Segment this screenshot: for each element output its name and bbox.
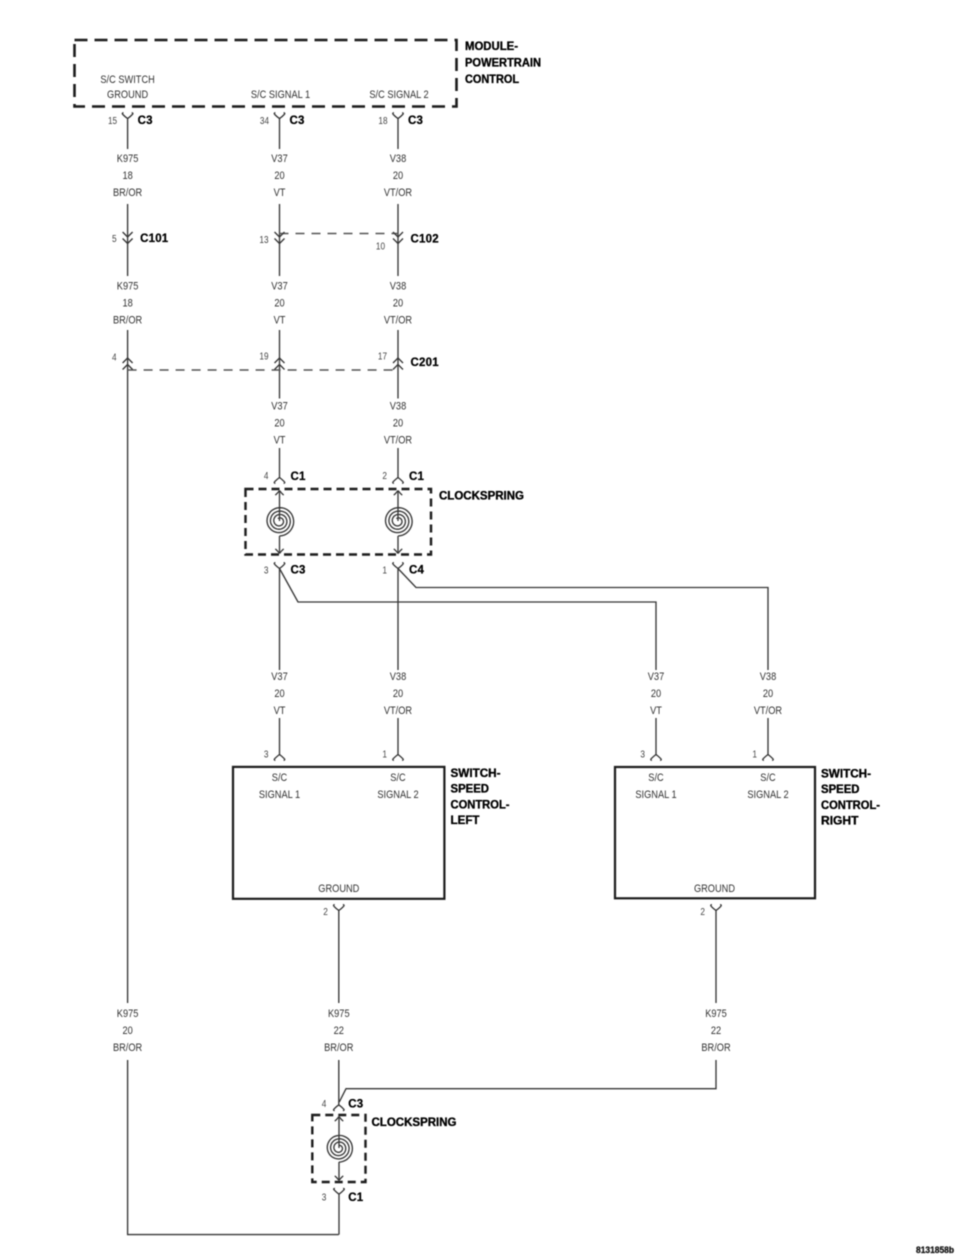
svg-text:K975: K975 [117, 281, 139, 293]
wire K975 left run to bottom [128, 1060, 339, 1235]
svg-text:3: 3 [264, 566, 269, 577]
svg-text:19: 19 [259, 352, 268, 363]
pin 15 connector C3 (PCM ground) [122, 113, 133, 119]
clockspring box (dashed) [246, 489, 432, 555]
clockspring coil 1 lead arrow up [275, 491, 283, 496]
svg-text:V38: V38 [390, 281, 407, 293]
module - powertrain control outline (dashed) [75, 40, 457, 107]
clockspring coil 2 spiral [386, 508, 413, 536]
svg-text:5: 5 [112, 234, 117, 245]
clockspring ground coil lead arrow up [335, 1117, 343, 1122]
svg-text:4: 4 [112, 353, 117, 364]
connector C201 pin 17 [393, 358, 403, 370]
svg-text:2: 2 [700, 907, 705, 918]
wire V37 branch to right switch [280, 569, 657, 671]
svg-text:VT/OR: VT/OR [754, 705, 782, 717]
svg-text:C3: C3 [290, 115, 305, 127]
wire V37 from PCM pin 34 [279, 119, 281, 149]
svg-text:SPEED: SPEED [821, 782, 860, 796]
svg-text:C3: C3 [348, 1099, 363, 1111]
switch-speed control-left box [233, 767, 444, 899]
svg-text:20: 20 [393, 688, 403, 700]
svg-text:4: 4 [322, 1099, 327, 1110]
svg-text:C3: C3 [408, 115, 423, 127]
svg-text:CONTROL-: CONTROL- [821, 798, 880, 812]
right switch pin 3 [651, 755, 662, 761]
svg-text:18: 18 [122, 298, 132, 310]
svg-text:V38: V38 [390, 153, 407, 165]
svg-text:VT: VT [650, 705, 662, 717]
svg-text:V38: V38 [390, 671, 407, 683]
clockspring pin 2 connector C1 [393, 478, 404, 484]
svg-text:SIGNAL 1: SIGNAL 1 [259, 789, 300, 801]
svg-text:3: 3 [264, 750, 269, 761]
wire into left switch pin 3 [279, 718, 281, 755]
wire V38 into clockspring C1 [397, 448, 399, 478]
svg-text:LEFT: LEFT [451, 813, 481, 827]
svg-text:20: 20 [393, 418, 403, 430]
svg-text:V37: V37 [271, 671, 288, 683]
svg-text:SIGNAL 1: SIGNAL 1 [635, 789, 676, 801]
svg-text:BR/OR: BR/OR [113, 315, 142, 327]
svg-text:POWERTRAIN: POWERTRAIN [465, 56, 541, 70]
wire V37 into clockspring C1 [279, 448, 281, 478]
svg-text:V38: V38 [760, 671, 777, 683]
svg-text:S/C SIGNAL 2: S/C SIGNAL 2 [369, 89, 428, 101]
wire V38 to left switch [397, 569, 399, 671]
svg-text:V37: V37 [648, 671, 665, 683]
svg-text:17: 17 [378, 352, 387, 363]
svg-text:VT/OR: VT/OR [384, 187, 412, 199]
switch-speed control-right box [615, 767, 815, 898]
clockspring pin 4 connector C3 (ground) [334, 1105, 345, 1111]
connector C101 pin 5 [123, 232, 133, 244]
svg-text:20: 20 [763, 688, 773, 700]
left switch pin 1 [393, 755, 404, 761]
svg-text:C1: C1 [409, 471, 425, 483]
svg-text:K975: K975 [117, 153, 139, 165]
wire V37 into C102 [279, 204, 281, 276]
svg-text:SPEED: SPEED [451, 782, 490, 796]
wire V38 from PCM pin 18 [397, 119, 399, 149]
svg-text:C201: C201 [411, 357, 440, 369]
svg-text:20: 20 [393, 170, 403, 182]
svg-text:SWITCH-: SWITCH- [451, 766, 501, 780]
wire into right switch pin 1 [767, 718, 769, 755]
svg-text:RIGHT: RIGHT [821, 814, 859, 828]
wire into right switch pin 3 [655, 718, 657, 755]
svg-text:CLOCKSPRING: CLOCKSPRING [372, 1115, 457, 1129]
connector C201 tie line (dashed) [128, 369, 398, 371]
svg-text:VT/OR: VT/OR [384, 315, 412, 327]
clockspring pin 4 connector C1 [274, 478, 285, 484]
svg-text:VT/OR: VT/OR [384, 705, 412, 717]
svg-text:22: 22 [334, 1025, 344, 1037]
clockspring ground box (dashed) [312, 1115, 365, 1182]
svg-text:C102: C102 [411, 234, 439, 246]
svg-text:20: 20 [274, 298, 284, 310]
connector C102 pin 10 [393, 232, 403, 244]
svg-text:C1: C1 [291, 471, 307, 483]
svg-text:18: 18 [122, 170, 132, 182]
svg-text:10: 10 [376, 242, 385, 253]
svg-text:BR/OR: BR/OR [701, 1042, 730, 1054]
svg-text:C3: C3 [138, 115, 153, 127]
clockspring pin 3 connector C1 (ground) [334, 1188, 345, 1194]
clockspring coil 2 lead arrow down [397, 536, 399, 554]
svg-text:S/C: S/C [760, 772, 775, 784]
right switch pin 1 [763, 755, 774, 761]
svg-text:V37: V37 [271, 281, 288, 293]
clockspring ground coil lead arrow down [338, 1162, 340, 1181]
svg-text:S/C: S/C [648, 772, 663, 784]
right switch ground pin 2 [711, 905, 722, 911]
svg-text:3: 3 [322, 1193, 327, 1204]
svg-text:BR/OR: BR/OR [113, 187, 142, 199]
svg-text:2: 2 [382, 471, 387, 482]
svg-text:20: 20 [122, 1025, 132, 1037]
svg-text:V38: V38 [390, 401, 407, 413]
wire left ground to clockspring C3 [338, 1060, 340, 1105]
svg-text:S/C SWITCH: S/C SWITCH [100, 74, 154, 86]
clockspring coil 1 lead arrow down [279, 536, 281, 554]
connector C102 pin 13 [275, 232, 285, 244]
wire V38 into C102 [397, 204, 399, 276]
svg-text:MODULE-: MODULE- [465, 39, 518, 53]
svg-text:CLOCKSPRING: CLOCKSPRING [439, 489, 524, 503]
pin 34 connector C3 (signal 1) [274, 113, 285, 119]
wire left switch ground [338, 911, 340, 1004]
wire V38 into C201 [397, 330, 399, 399]
svg-text:K975: K975 [705, 1008, 727, 1020]
svg-text:2: 2 [323, 907, 328, 918]
left switch ground pin 2 [334, 905, 345, 911]
svg-text:CONTROL-: CONTROL- [451, 797, 510, 811]
clockspring coil 1 spiral [267, 508, 294, 536]
wire right ground joins at C3 [339, 1060, 716, 1102]
wire K975 from PCM pin 15 [127, 119, 129, 149]
clockspring coil 2 lead arrow up [394, 491, 402, 496]
svg-text:1: 1 [382, 566, 387, 577]
svg-text:20: 20 [274, 418, 284, 430]
svg-text:BR/OR: BR/OR [324, 1042, 353, 1054]
svg-text:K975: K975 [117, 1008, 139, 1020]
wire K975 into C101 [127, 204, 129, 276]
svg-text:GROUND: GROUND [694, 883, 735, 895]
svg-text:V37: V37 [271, 153, 288, 165]
wire V37 to left switch [279, 569, 281, 671]
svg-text:18: 18 [378, 116, 387, 127]
svg-text:34: 34 [260, 116, 269, 127]
wire V38 branch to right switch [398, 569, 768, 671]
svg-text:1: 1 [752, 750, 757, 761]
svg-text:C3: C3 [291, 565, 306, 577]
svg-text:20: 20 [274, 170, 284, 182]
clockspring pin 3 connector C3 [274, 563, 285, 569]
wire K975 into C201 [127, 330, 129, 1003]
svg-text:VT: VT [274, 315, 286, 327]
svg-text:C1: C1 [348, 1192, 364, 1204]
connector C201 pin 4 [123, 358, 133, 370]
wire into left switch pin 1 [397, 718, 399, 755]
svg-text:13: 13 [259, 235, 268, 246]
svg-text:8131858b: 8131858b [916, 1245, 954, 1256]
svg-text:VT: VT [274, 705, 286, 717]
clockspring ground coil spiral [327, 1136, 352, 1163]
svg-text:3: 3 [640, 750, 645, 761]
svg-text:VT/OR: VT/OR [384, 435, 412, 447]
svg-text:SIGNAL 2: SIGNAL 2 [747, 789, 788, 801]
svg-text:SWITCH-: SWITCH- [821, 767, 871, 781]
svg-text:20: 20 [651, 688, 661, 700]
svg-text:S/C SIGNAL 1: S/C SIGNAL 1 [251, 89, 310, 101]
svg-text:K975: K975 [328, 1008, 350, 1020]
wire V37 into C201 [279, 330, 281, 399]
svg-text:CONTROL: CONTROL [465, 72, 519, 86]
svg-text:SIGNAL 2: SIGNAL 2 [377, 789, 418, 801]
svg-text:20: 20 [274, 688, 284, 700]
svg-text:V37: V37 [271, 401, 288, 413]
wire clockspring C1 to bottom run [338, 1194, 340, 1234]
svg-text:22: 22 [711, 1025, 721, 1037]
svg-text:1: 1 [382, 750, 387, 761]
svg-text:15: 15 [108, 116, 117, 127]
svg-text:GROUND: GROUND [107, 89, 148, 101]
svg-text:20: 20 [393, 298, 403, 310]
svg-text:S/C: S/C [390, 772, 405, 784]
svg-text:4: 4 [264, 471, 269, 482]
svg-text:BR/OR: BR/OR [113, 1042, 142, 1054]
svg-text:GROUND: GROUND [318, 883, 359, 895]
pin 18 connector C3 (signal 2) [393, 113, 404, 119]
left switch pin 3 [274, 755, 285, 761]
clockspring pin 1 connector C4 [393, 563, 404, 569]
connector C201 pin 19 [275, 358, 285, 370]
svg-text:VT: VT [274, 187, 286, 199]
svg-text:C4: C4 [409, 565, 425, 577]
svg-text:S/C: S/C [272, 772, 287, 784]
wire right switch ground [715, 911, 717, 1004]
connector C102 tie line (dashed) [280, 233, 399, 235]
svg-text:VT: VT [274, 435, 286, 447]
svg-text:C101: C101 [140, 233, 169, 245]
